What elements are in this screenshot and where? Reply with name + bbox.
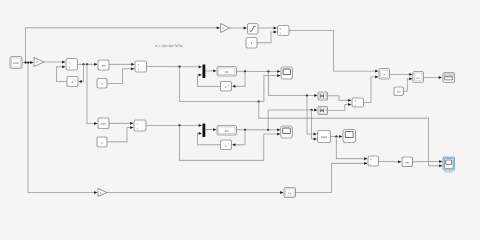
wire: fcn1 to scope_a: [237, 70, 281, 72]
node: junction n: [311, 109, 313, 111]
node: junction a: [24, 61, 26, 63]
node: junction g: [244, 70, 246, 72]
node: junction m: [267, 129, 269, 131]
constant C3: [246, 38, 257, 49]
wire: phase ref down and right: [180, 67, 259, 102]
node: junction d: [86, 63, 88, 65]
node: junction o: [335, 135, 337, 137]
wire: z2 out to mux1 lower input: [198, 75, 221, 86]
wire: fcn1 branch down to sq1: [268, 72, 317, 96]
product P1: [379, 69, 390, 80]
display D1: [443, 73, 455, 83]
node: junction l: [244, 129, 246, 131]
wire: fcn2 to scope_b: [237, 129, 281, 131]
unit delay Z2 (mirrored): [221, 82, 232, 92]
sum S4 (top): [278, 26, 290, 36]
wire: const1 to sum2 lower input: [107, 69, 134, 84]
wire: sum_cos to mux2: [146, 124, 202, 126]
svg-text:+: +: [136, 122, 138, 126]
svg-text:+: +: [68, 60, 70, 64]
math square block Q1: [318, 92, 328, 100]
sum S1: [66, 59, 78, 71]
wire: gain2 to saturation: [230, 27, 247, 29]
svg-text:−: −: [370, 162, 372, 166]
wire: sq1 to sum4: [328, 96, 352, 101]
wire: ref to scope_a lower input: [259, 76, 280, 102]
wire: atan2 branch down to sum5: [336, 137, 367, 159]
scope Scope2 selected: [443, 157, 455, 173]
node: junction f: [258, 100, 260, 102]
wire: saturation to sum3: [258, 27, 277, 29]
svg-text:1/2: 1/2: [397, 91, 401, 94]
svg-text:+: +: [280, 32, 282, 36]
wire: delay up to sum5 lower input: [296, 163, 368, 192]
wire: gain3 to delay block: [107, 192, 283, 194]
wire: const3 to sum3 lower input: [257, 32, 277, 43]
svg-text:sin: sin: [405, 160, 409, 164]
svg-text:+: +: [280, 27, 282, 31]
constant C1: [97, 79, 107, 89]
sum S2: [135, 61, 147, 72]
wire: fcn2 branch up to sq2: [268, 110, 317, 130]
wire: z3 out to mux2 lower input: [198, 133, 221, 144]
wire: sum4 up to product: [364, 77, 379, 103]
wire: top long from source to gain2: [26, 28, 220, 63]
wire: source to gain1: [22, 62, 33, 64]
wire: sum1 feedback down to z1: [79, 64, 84, 81]
sum S5 (squares): [352, 98, 364, 107]
wire: sq2 to sum4: [328, 105, 352, 111]
sin block 2: [402, 157, 413, 167]
mux M2: [203, 124, 206, 138]
math square block Q2: [318, 107, 328, 115]
source block 1000: [10, 57, 22, 69]
wire: sum2 to mux1: [147, 66, 202, 68]
svg-text:z-n: z-n: [288, 192, 292, 195]
wire: sum3 long down to product: [289, 31, 378, 72]
svg-text:+: +: [137, 68, 139, 72]
wire: sin to sum2: [109, 63, 134, 65]
node: junction e: [178, 66, 180, 68]
wire: cos raw ref loop to scope_b lower input: [180, 125, 281, 160]
wire: const4 to power lower input: [404, 79, 413, 91]
sum S6 (bottom right): [368, 156, 379, 166]
scope B: [281, 126, 293, 138]
wire: sin2 to scope1: [413, 161, 443, 163]
wire: bottom long from source to gain3: [28, 63, 97, 193]
fcn U1: [217, 67, 237, 77]
wire: mux1 to fcn1: [206, 70, 217, 72]
wire: z1 out to sum1 second input: [57, 67, 68, 82]
wire: ref long to scope1 lower input: [259, 102, 442, 166]
node: junction b: [27, 61, 29, 63]
scope A: [281, 67, 293, 79]
svg-text:cos: cos: [101, 122, 106, 126]
wire: product to power: [390, 73, 413, 75]
scope C: [343, 130, 356, 143]
saturation block: [248, 24, 259, 35]
mux M1: [203, 65, 206, 79]
gain G1: [34, 58, 44, 67]
constant C2: [97, 137, 107, 147]
sum S3 (cos path): [134, 120, 146, 131]
svg-text:atan2: atan2: [321, 136, 328, 139]
wire: power to display: [424, 77, 442, 79]
wire: const2 to sum_cos lower input: [107, 128, 133, 142]
node: junction k: [178, 124, 180, 126]
svg-text:K = 1/(1+2pi*Ts/Ta): K = 1/(1+2pi*Ts/Ta): [156, 44, 183, 48]
unit delay Z3 (mirrored): [221, 140, 232, 150]
svg-text:Scope2: Scope2: [445, 171, 454, 174]
node: junction i: [306, 94, 308, 96]
sin block: [98, 60, 109, 70]
wire: cos to sum_cos: [109, 122, 133, 124]
svg-text:+: +: [354, 103, 356, 107]
svg-text:1000: 1000: [13, 62, 19, 65]
wire: to atan2 input1: [307, 96, 317, 135]
wire: fcn2 feedback to z3: [233, 130, 246, 145]
svg-text:+: +: [68, 66, 70, 70]
wire: gain1 to sum1: [44, 61, 65, 63]
wire: branch down to cos: [87, 64, 97, 123]
unit delay Z1 (mirrored): [67, 77, 78, 87]
svg-text:fcn: fcn: [225, 129, 229, 133]
wire: sum1 to sin: [78, 63, 98, 65]
svg-text:+: +: [370, 158, 372, 162]
wire: fcn1 feedback to z2: [233, 71, 246, 86]
svg-text:sin: sin: [102, 63, 106, 67]
delay block bottom: [284, 188, 296, 198]
svg-text:+: +: [136, 127, 138, 131]
wire: mux2 to fcn2: [206, 129, 217, 131]
node: junction h: [267, 70, 269, 72]
gain G3 (bottom): [98, 189, 107, 197]
cos block: [98, 118, 109, 129]
svg-text:fcn: fcn: [225, 70, 229, 74]
wire: atan2 to scope3: [331, 136, 343, 138]
gain G2: [221, 24, 230, 33]
node: junction c: [82, 63, 84, 65]
wire: sum5 to sin2: [379, 161, 402, 163]
fcn U2: [217, 126, 237, 136]
svg-text:+: +: [137, 63, 139, 67]
constant C4 1/2: [394, 87, 404, 96]
wire: to atan2 input2: [312, 110, 317, 139]
power block: [413, 72, 424, 83]
svg-text:u˄: u˄: [416, 76, 420, 80]
atan2 block: [318, 131, 331, 143]
